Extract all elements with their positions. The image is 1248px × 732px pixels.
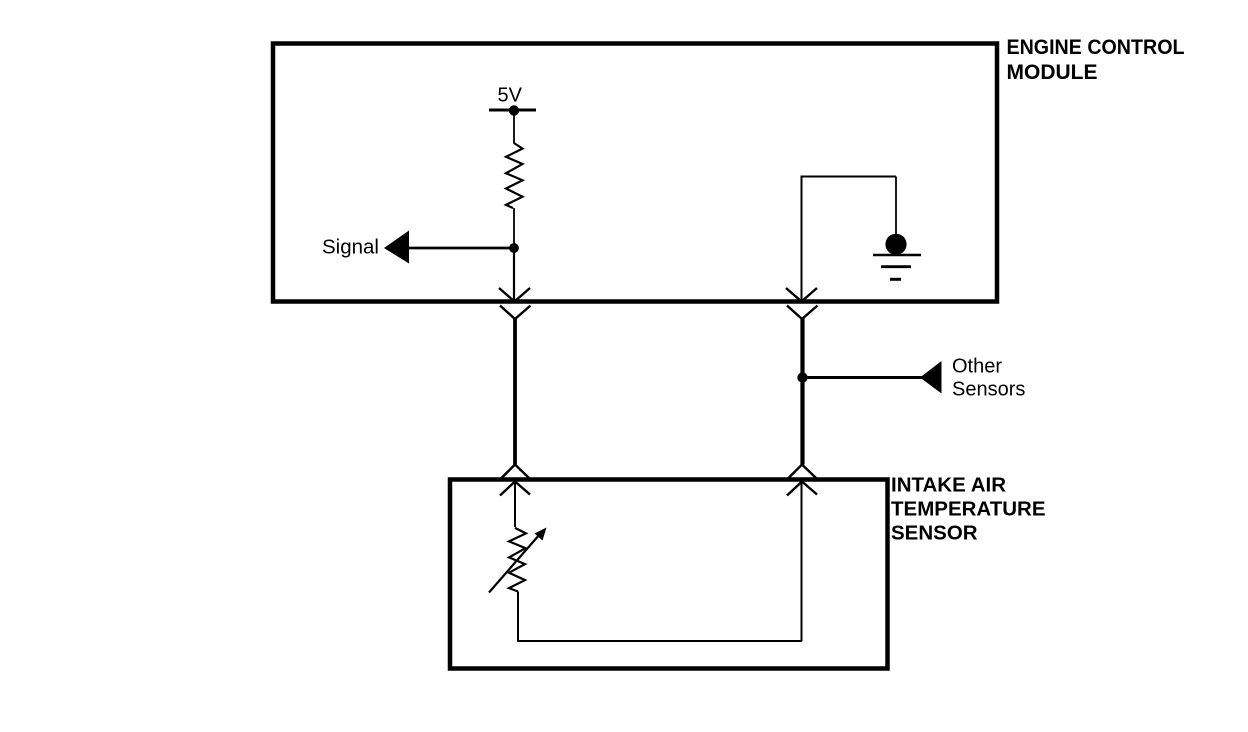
wire signal node to pin <box>513 248 515 301</box>
wire resistor to signal node <box>513 208 515 248</box>
connector pin right (sensor side) arrow <box>787 482 817 496</box>
thermistor arrowhead <box>535 528 547 541</box>
connector socket right (sensor side) chevron <box>788 465 817 479</box>
5V node dot <box>509 105 519 115</box>
svg-text:SENSOR: SENSOR <box>891 522 978 545</box>
ground elbow wire horizontal <box>801 176 897 178</box>
other sensors arrow <box>920 361 942 394</box>
wire pin to thermistor <box>514 482 516 528</box>
connector socket left (ECM side) V <box>500 306 531 320</box>
node signal junction dot <box>509 243 519 253</box>
IAT sensor box <box>450 480 888 669</box>
wire signal <box>406 247 514 250</box>
connector pin left (sensor side) arrow <box>500 482 530 496</box>
thermistor arrow line <box>489 534 540 593</box>
node other sensors junction dot <box>797 372 807 382</box>
ground elbow wire vertical left <box>801 177 803 301</box>
svg-text:TEMPERATURE: TEMPERATURE <box>891 498 1046 521</box>
wire return right vertical <box>801 482 803 642</box>
svg-text:MODULE: MODULE <box>1007 61 1098 84</box>
svg-text:Other: Other <box>952 356 1002 378</box>
connector pin right (ECM side) arrow <box>786 288 817 302</box>
wire harness left <box>513 318 517 465</box>
ground elbow wire vertical right <box>895 177 897 236</box>
wire return bottom <box>517 640 802 642</box>
svg-text:Signal: Signal <box>322 236 379 259</box>
thermistor RT <box>509 528 526 592</box>
svg-text:INTAKE AIR: INTAKE AIR <box>891 474 1006 497</box>
wire harness right <box>800 318 804 465</box>
ground symbol line 1 <box>873 254 921 257</box>
ground symbol line 3 <box>890 278 901 281</box>
svg-text:ENGINE CONTROL: ENGINE CONTROL <box>1007 36 1185 59</box>
svg-text:Sensors: Sensors <box>952 379 1025 401</box>
wire thermistor to return <box>517 592 519 642</box>
svg-text:5V: 5V <box>498 85 523 107</box>
5V supply bar <box>489 109 536 112</box>
connector socket left (sensor side) chevron <box>501 465 530 479</box>
wire 5V to resistor <box>513 110 515 144</box>
resistor R (pull-up) <box>506 143 523 208</box>
ECM box <box>273 44 997 302</box>
wire other sensors <box>803 376 923 379</box>
signal arrow <box>384 231 409 264</box>
ground symbol line 2 <box>881 265 911 268</box>
connector pin left (ECM side) arrow <box>499 288 530 302</box>
ground dot <box>885 234 906 255</box>
connector socket right (ECM side) V <box>787 306 818 320</box>
